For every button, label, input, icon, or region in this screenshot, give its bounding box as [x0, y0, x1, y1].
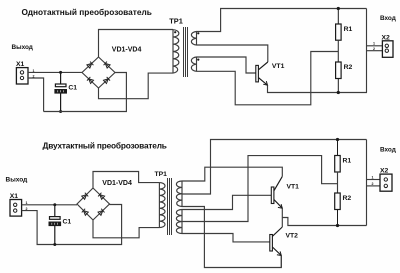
diode VD3 (bottom circuit bottom-left edge): [82, 209, 89, 216]
transformer TP1 core (bottom circuit): [168, 178, 172, 235]
capacitor C1 (bottom circuit): [49, 205, 60, 245]
svg-text:VD1-VD4: VD1-VD4: [112, 47, 142, 54]
diode VD4 (bottom circuit bottom-right edge): [98, 209, 105, 216]
wire X1 pin2 down to bottom rail (bottom): [22, 205, 122, 245]
wire upper secondary bottom to VT1 collector: [197, 45, 268, 62]
wire G1 center tap to input rail: [182, 140, 367, 195]
junction R1 top (top circuit): [337, 7, 340, 10]
capacitor C1 (top circuit): [55, 72, 66, 111]
svg-text:R1: R1: [344, 26, 353, 33]
wire lower secondary bottom to bias return: [197, 52, 339, 105]
wire G1 bottom to emitter rail: [182, 207, 281, 268]
diode VD2 (top-right edge): [104, 62, 111, 69]
transformer TP1 collector winding G1 (bottom circuit): [176, 181, 182, 207]
resistor R2 (top circuit): [336, 62, 342, 93]
polarity dot lower secondary (top TP1): [197, 59, 199, 61]
wire R1 bottom to R2 top: [337, 40, 339, 62]
wire VT1 emitter to VT2 collector (totem junction): [281, 208, 283, 227]
svg-text:VT2: VT2: [286, 232, 299, 239]
diode VD1 (top-left edge): [87, 62, 94, 69]
svg-text:R1: R1: [343, 158, 352, 165]
wire X2 pin stubs (bottom circuit): [367, 179, 381, 181]
wire upper secondary top to +input rail: [197, 9, 367, 32]
transformer TP1 base winding G2 (bottom circuit): [176, 210, 182, 234]
wire G2 top to VT1 base (jog): [182, 195, 271, 209]
junction C1 bottom: [59, 110, 62, 113]
diode bridge VD1-VD4 (bottom circuit) : diamond: [77, 188, 110, 220]
resistor R2 (bottom circuit): [335, 193, 341, 226]
wire input rail down to X2 (top circuit): [366, 9, 368, 93]
wire bridge right vertex to bottom rail: [44, 73, 127, 112]
wire G2 bottom to VT2 base (jog): [182, 234, 270, 242]
diode VD3 (bottom-left edge): [87, 77, 94, 84]
transformer TP1 core (top circuit): [184, 27, 188, 77]
wire R1 bottom to R2 top (bottom circuit): [337, 172, 339, 193]
wire G1 top to VT1 collector: [182, 167, 282, 181]
transformer TP1 primary winding (bottom circuit): [159, 183, 165, 228]
svg-text:VT1: VT1: [287, 184, 300, 191]
wire bridge bottom vertex to TP1 primary bottom (jog): [99, 73, 174, 99]
junction C1 top (bottom): [53, 203, 56, 206]
junction R2 bottom (top circuit): [337, 91, 340, 94]
diode VD4 (bottom-right edge): [103, 77, 110, 84]
svg-text:2: 2: [372, 182, 374, 186]
polarity dot upper secondary (top TP1): [197, 32, 199, 34]
svg-text:Вход: Вход: [380, 15, 396, 22]
svg-text:2: 2: [373, 47, 375, 51]
transistor VT1 (bottom circuit): [271, 176, 282, 208]
wire X2 pin stubs (top circuit): [367, 45, 383, 47]
diode VD2 (bottom circuit top-right edge): [98, 193, 105, 200]
wire X1 pin1 to bridge left vertex: [28, 71, 82, 73]
transistor VT2 (bottom circuit): [270, 227, 283, 256]
transformer TP1 upper secondary winding (top circuit): [191, 32, 196, 46]
connector X1 (bottom circuit): [10, 200, 22, 217]
resistor R1 (bottom circuit): [335, 140, 341, 173]
svg-text:R2: R2: [344, 64, 353, 71]
wire VT1 emitter to bottom rail: [268, 85, 368, 92]
junction C1 top: [59, 71, 62, 74]
junction C1 bottom (bottom): [53, 243, 56, 246]
wire bridge top vertex to primary top (bottom, jog): [93, 172, 159, 189]
svg-text:VT1: VT1: [272, 63, 285, 70]
transformer TP1 primary winding (top circuit): [173, 30, 179, 74]
wire bridge top vertex to TP1 primary top: [99, 30, 174, 58]
connector X2 (bottom circuit): [380, 174, 392, 191]
svg-text:Двухтактный преоброзователь: Двухтактный преоброзователь: [43, 141, 167, 151]
resistor R1 (top circuit): [336, 9, 342, 41]
wire lower secondary top to VT1 base (jog): [197, 57, 256, 73]
svg-text:Выход: Выход: [6, 176, 28, 183]
junction R2 bottom (bottom circuit): [336, 224, 339, 227]
wire input rail down to X2 (bottom circuit): [366, 140, 368, 226]
wire bridge bottom vertex to primary bottom (bottom, jog): [93, 220, 159, 238]
transformer TP1 lower secondary winding (top circuit): [191, 57, 196, 71]
svg-text:1: 1: [373, 42, 375, 46]
svg-text:C1: C1: [68, 85, 77, 92]
svg-text:1: 1: [372, 175, 374, 179]
svg-text:Выход: Выход: [12, 44, 33, 51]
wire totem junction tap to bottom rail: [282, 218, 366, 226]
connector X1 (top circuit): [16, 68, 28, 84]
wire VT2 emitter down to emitter rail: [280, 256, 282, 268]
svg-text:R2: R2: [343, 195, 352, 202]
diode bridge VD1-VD4 (top circuit) : diamond: [82, 57, 115, 88]
svg-text:Однотактный преоброзователь: Однотактный преоброзователь: [22, 7, 152, 17]
junction R1 top (bottom circuit): [336, 138, 339, 141]
polarity dot primary (top TP1): [174, 31, 176, 33]
diode VD1 (bottom circuit top-left edge): [81, 193, 88, 200]
wire X1 pin1 to bridge left vertex (bottom): [22, 204, 77, 206]
connector X2 (top circuit): [382, 41, 393, 58]
transistor VT1 (top circuit): [256, 62, 268, 85]
svg-text:Вход: Вход: [380, 147, 396, 154]
svg-text:C1: C1: [63, 219, 72, 226]
wire X1 pin2 down to bottom rail: [28, 78, 44, 112]
wire G2 center tap to R1/R2 midpoint: [182, 156, 338, 222]
svg-text:TP1: TP1: [169, 16, 183, 25]
svg-text:TP1: TP1: [155, 171, 168, 178]
svg-text:VD1-VD4: VD1-VD4: [102, 180, 132, 187]
